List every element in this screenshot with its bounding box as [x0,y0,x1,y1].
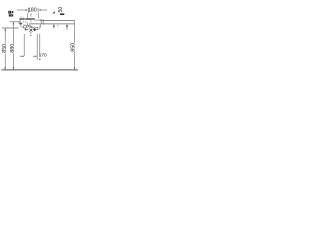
svg-text:850: 850 [2,44,8,53]
svg-text:50: 50 [58,7,64,13]
svg-text:880: 880 [10,44,16,53]
svg-text:170: 170 [39,52,47,58]
svg-text:850: 850 [70,43,76,52]
svg-text:180: 180 [28,7,37,13]
